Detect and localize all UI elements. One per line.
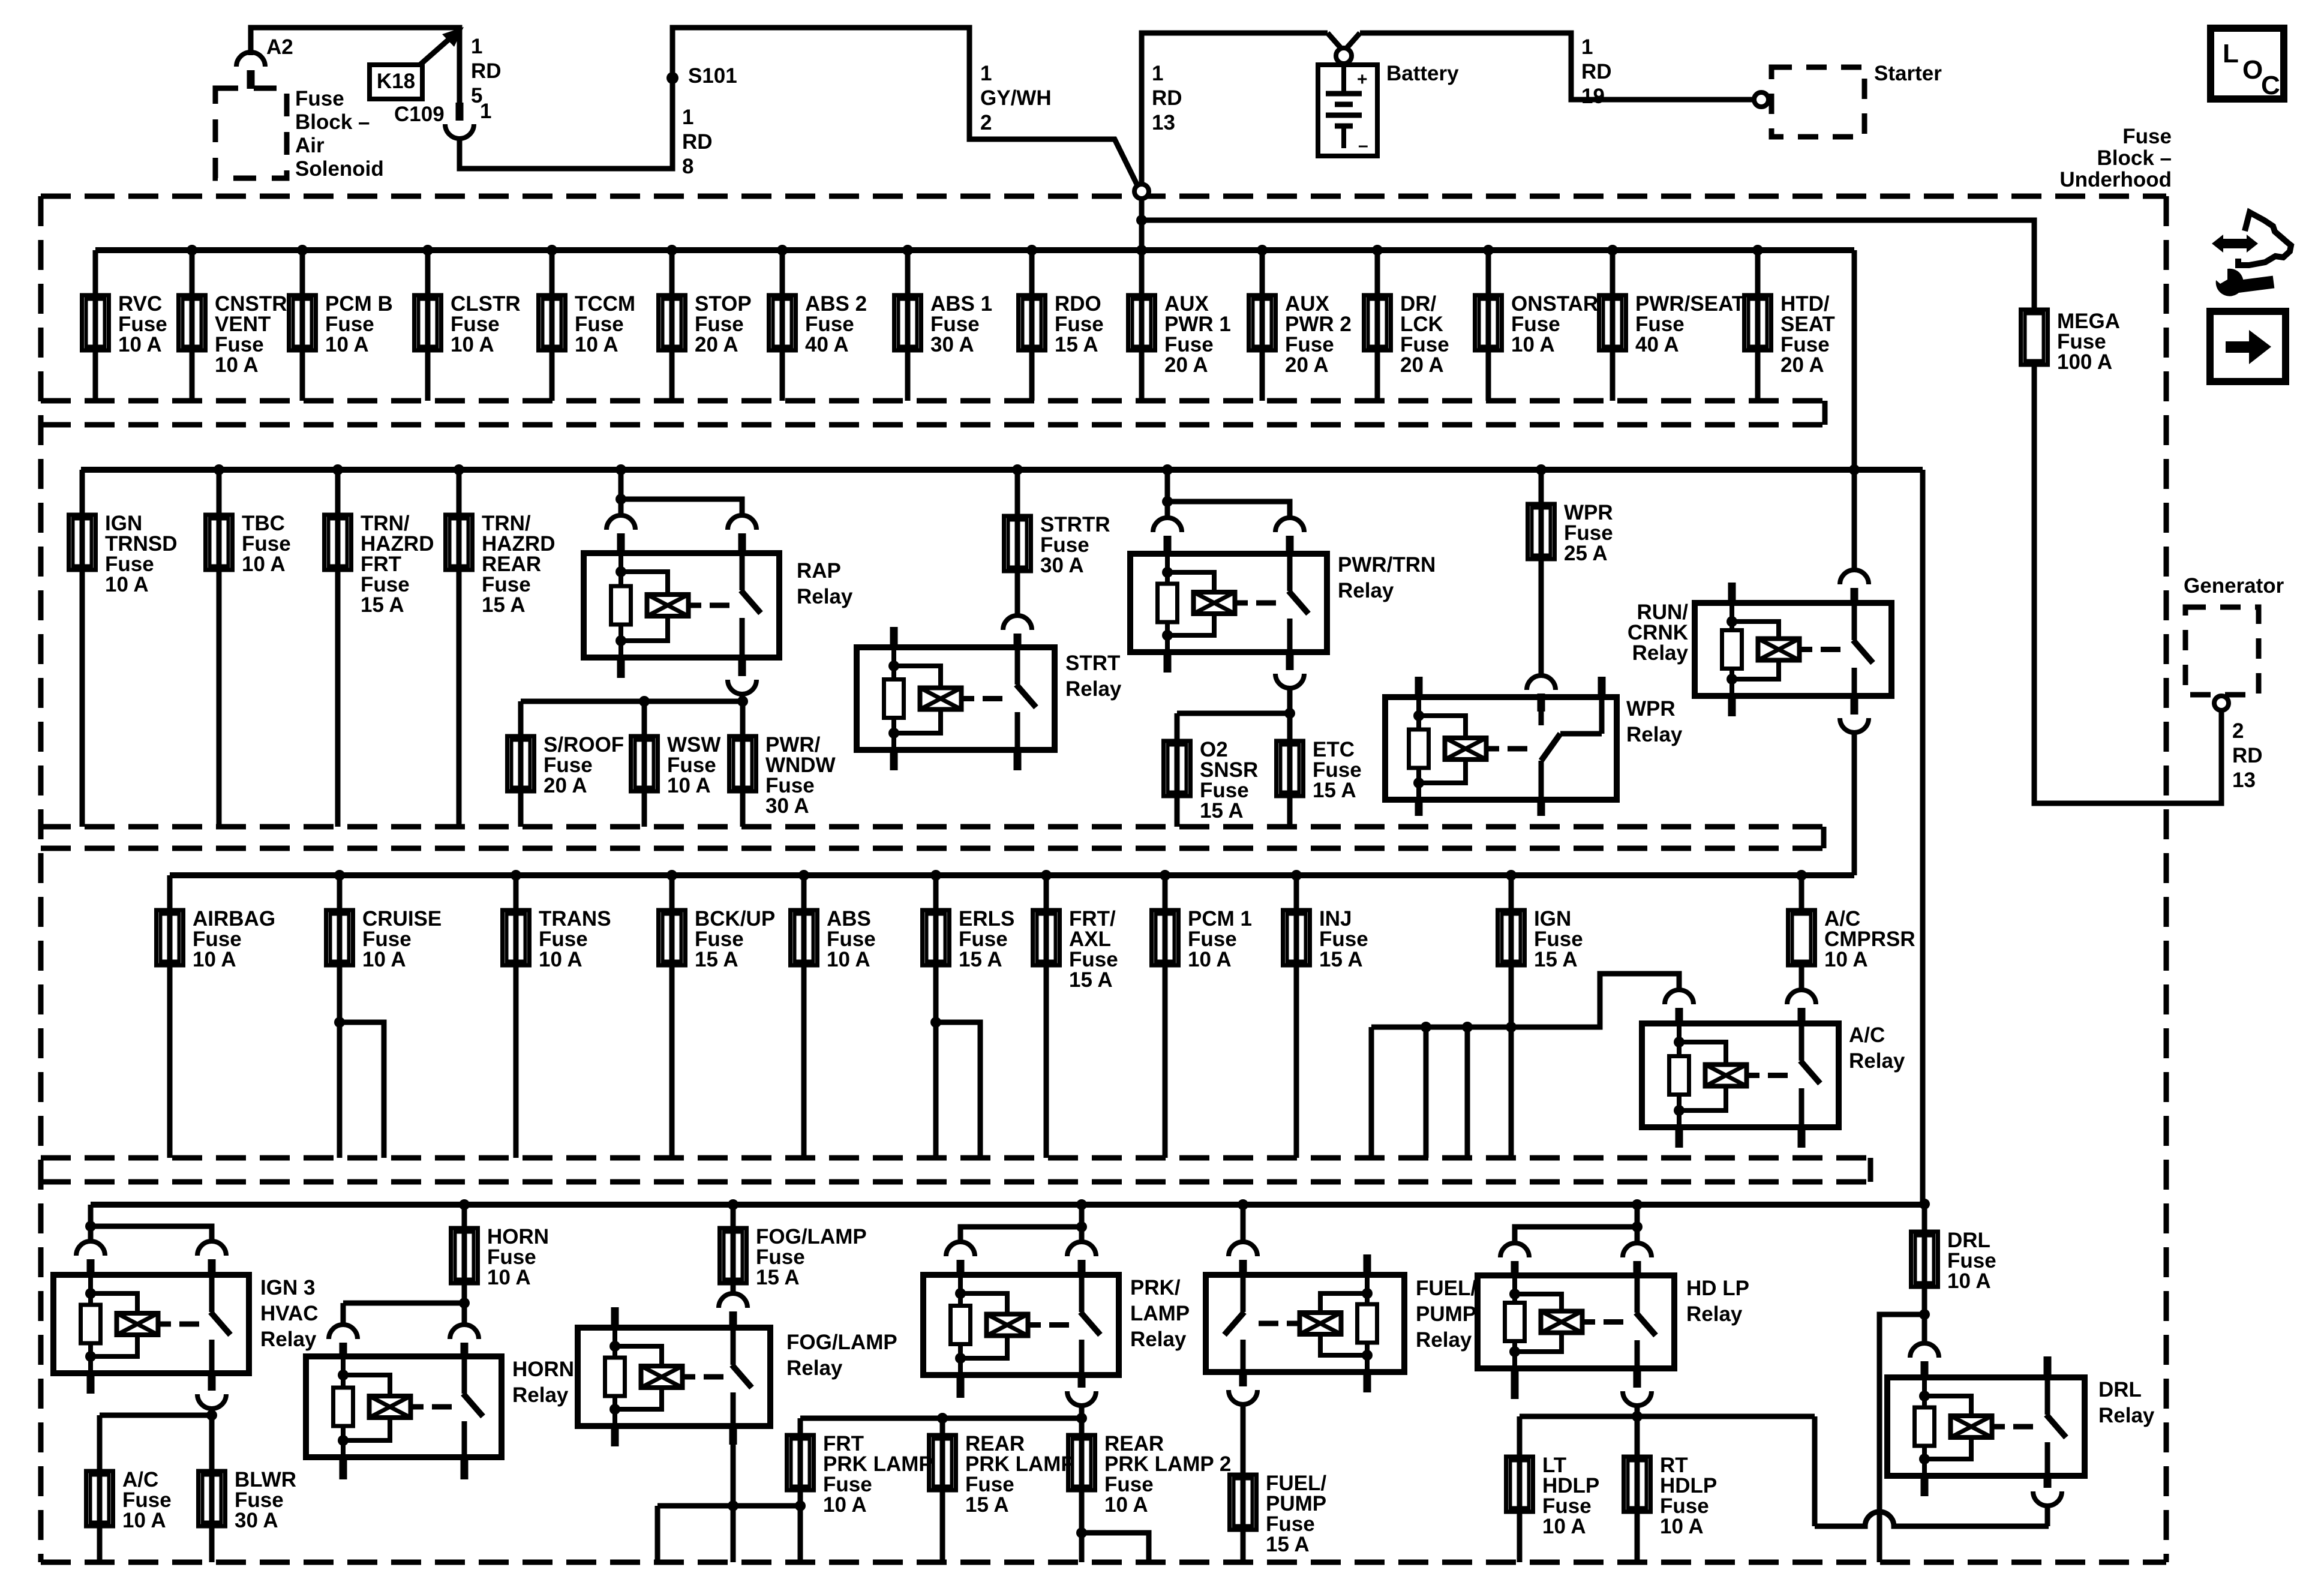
arrow box icon bbox=[2210, 311, 2286, 382]
wire HD LP branch to DRL relay output bbox=[1812, 1416, 1818, 1526]
wire DRL branch down bbox=[1879, 1314, 1924, 1562]
connector PWR/TRN switch pin bbox=[1275, 518, 1304, 532]
fuse DRL bbox=[1922, 1205, 1927, 1344]
fuse RVC bbox=[93, 250, 98, 401]
feed splice circle into fuse block bbox=[1134, 184, 1149, 199]
connector FUEL/PUMP output bbox=[1229, 1390, 1257, 1404]
fuse ABS bbox=[798, 870, 809, 881]
fuse IGN bbox=[1506, 870, 1517, 881]
fuse TBC bbox=[217, 470, 222, 827]
connector IGN3 coil pin bbox=[76, 1241, 105, 1256]
fuse FOG/LAMP bbox=[728, 1199, 738, 1210]
svg-text:RVCFuse10 A: RVCFuse10 A bbox=[118, 292, 167, 356]
wire MEGA to generator bbox=[2034, 363, 2221, 803]
fuse BLWR bbox=[209, 1415, 215, 1562]
wire IGN to A/C relay coil bbox=[1511, 974, 1679, 1027]
fuse PCM 1 bbox=[1160, 870, 1170, 881]
fuse ERLS bbox=[930, 870, 941, 881]
fuse CRUISE bbox=[334, 870, 345, 881]
fuse HTD/SEAT bbox=[1755, 250, 1761, 401]
relay IGN 3 HVAC bbox=[53, 1275, 249, 1373]
wire battery to starter bbox=[1360, 33, 1753, 100]
fuse TRN/HAZRD FRT bbox=[335, 470, 341, 827]
fuse AUX PWR 2 bbox=[1260, 250, 1265, 401]
svg-text:A2: A2 bbox=[266, 35, 293, 59]
svg-text:RDOFuse15 A: RDOFuse15 A bbox=[1055, 292, 1104, 356]
connector C109 bbox=[445, 124, 474, 139]
svg-text:+: + bbox=[1357, 70, 1368, 89]
connector RAP output bbox=[728, 680, 756, 694]
svg-text:ETCFuse15 A: ETCFuse15 A bbox=[1313, 738, 1362, 802]
IGN fuse wire and taps bbox=[1509, 875, 1514, 1158]
sub-bus HDLP fuses bbox=[1632, 1411, 1643, 1422]
connector HORN switch pin bbox=[450, 1325, 479, 1339]
fuse A/C CMPRSR bbox=[1796, 870, 1807, 881]
svg-text:FRT/AXLFuse15 A: FRT/AXLFuse15 A bbox=[1069, 907, 1118, 992]
Fuse Block - Air Solenoid dashed box bbox=[215, 88, 287, 178]
connector DRL coil pin bbox=[1910, 1343, 1939, 1358]
wire with hop over at 3133 bbox=[1815, 1512, 2049, 1526]
row 2 bus bbox=[81, 467, 1923, 473]
fuse O2 SNSR bbox=[1175, 713, 1180, 827]
fuse TCCM bbox=[550, 250, 555, 401]
fuse STRTR bbox=[1012, 464, 1023, 475]
relay RAP bbox=[584, 553, 779, 658]
row separator dashed lines bbox=[41, 401, 1870, 1182]
Generator dashed box bbox=[2185, 607, 2259, 695]
svg-text:Starter: Starter bbox=[1874, 62, 1942, 85]
fuse IGN TRNSD bbox=[80, 470, 85, 827]
fuse TRN/HAZRD REAR bbox=[457, 470, 462, 827]
STRT coil pin stub bbox=[890, 627, 898, 647]
fuse AIRBAG bbox=[157, 910, 184, 965]
CRUISE fuse wire with tap bbox=[337, 875, 343, 1158]
FUEL/PUMP relay feed bbox=[1238, 1199, 1248, 1210]
fuse S/ROOF bbox=[518, 701, 524, 827]
fuse PWR/SEAT bbox=[1610, 250, 1616, 401]
fuse RT HDLP bbox=[1635, 1416, 1640, 1562]
fuse DR/LCK bbox=[1375, 250, 1380, 401]
connector IGN3 switch pin bbox=[197, 1241, 226, 1256]
row 1 bus bbox=[95, 247, 1854, 253]
FUEL/PUMP coil pin stub bbox=[1364, 1254, 1371, 1275]
fuse RDO bbox=[1029, 250, 1035, 401]
row 4 bus bbox=[91, 1202, 1924, 1208]
fuse A/C bbox=[97, 1415, 103, 1562]
fuse REAR PRK LAMP 2 bbox=[1068, 1435, 1095, 1490]
svg-text:WPRFuse25 A: WPRFuse25 A bbox=[1564, 501, 1613, 565]
fuse CLSTR bbox=[425, 250, 431, 401]
ERLS fuse wire with tap bbox=[933, 875, 939, 1158]
wire C109 to S101 bbox=[460, 28, 1137, 185]
connector PWR/TRN coil pin bbox=[1153, 518, 1182, 532]
Fuse Block - Underhood dashed border bbox=[41, 196, 2166, 1562]
sub-bus PRK LAMP fuses bbox=[1076, 1413, 1087, 1424]
connector RAP coil pin bbox=[606, 515, 635, 530]
fuse AUX PWR 1 bbox=[1139, 250, 1145, 401]
fuse INJ bbox=[1291, 870, 1302, 881]
HD LP relay feed bbox=[1632, 1199, 1643, 1210]
RAP relay feed bbox=[615, 464, 626, 475]
battery top connector bbox=[1328, 33, 1341, 49]
wire RUN/CRNK output to row 3 bus bbox=[1852, 733, 1857, 875]
connector/wrench icon bbox=[2212, 212, 2291, 296]
fuse FRT PRK LAMP bbox=[798, 1418, 803, 1506]
FOG/LAMP coil pin stub bbox=[611, 1307, 619, 1328]
connector DRL output bbox=[2033, 1491, 2062, 1506]
K18 arrow bbox=[420, 38, 450, 65]
fuse ABS 2 bbox=[780, 250, 785, 401]
wire A2 to C109 drop bbox=[251, 28, 460, 103]
connector A2 bbox=[236, 52, 265, 67]
connector PWR/TRN output bbox=[1275, 674, 1304, 688]
fuse WPR bbox=[1536, 464, 1547, 475]
fuse ABS 1 bbox=[905, 250, 911, 401]
relay PRK/LAMP bbox=[923, 1275, 1119, 1375]
relay WPR bbox=[1385, 697, 1617, 800]
fuse WSW bbox=[642, 701, 647, 827]
connector IGN3 output bbox=[197, 1394, 226, 1409]
relay A/C bbox=[1642, 1023, 1839, 1127]
PWR/TRN relay feed bbox=[1162, 464, 1173, 475]
node T to MEGA bbox=[1136, 215, 1147, 226]
svg-text:S101: S101 bbox=[688, 64, 737, 88]
sub-bus S/ROOF WSW PWR/WNDW bbox=[521, 699, 743, 704]
fuse ONSTAR bbox=[1486, 250, 1491, 401]
RUN/CRNK coil pin stub bbox=[1728, 583, 1736, 603]
battery bbox=[1318, 62, 1377, 156]
fuse HORN bbox=[459, 1199, 470, 1210]
svg-text:1: 1 bbox=[480, 100, 491, 123]
RAP relay bottom pins bbox=[617, 658, 625, 678]
relay HORN bbox=[306, 1356, 502, 1457]
feed wire into fuse block bbox=[1139, 199, 1145, 250]
svg-text:–: – bbox=[1358, 136, 1368, 155]
fuse PWR/WNDW bbox=[740, 701, 746, 827]
connector STRT relay switch pin bbox=[1003, 616, 1032, 630]
connector PRK/LAMP coil pin bbox=[946, 1242, 975, 1256]
row 3 bus bbox=[170, 872, 1854, 878]
connector PRK/LAMP output bbox=[1067, 1391, 1096, 1406]
svg-text:TBCFuse10 A: TBCFuse10 A bbox=[242, 512, 291, 576]
K18 box bbox=[370, 65, 422, 99]
LOC box icon bbox=[2211, 28, 2284, 100]
connector A/C relay switch pin bbox=[1787, 990, 1816, 1004]
svg-text:Battery: Battery bbox=[1386, 62, 1459, 85]
fuse PCM B bbox=[300, 250, 305, 401]
svg-text:C109: C109 bbox=[394, 103, 445, 126]
svg-text:IGN 3HVACRelay: IGN 3HVACRelay bbox=[260, 1276, 319, 1351]
svg-text:O: O bbox=[2242, 55, 2263, 85]
wire to A/C and BLWR fuses bbox=[206, 1410, 217, 1421]
fuse ETC bbox=[1287, 713, 1293, 827]
svg-text:C: C bbox=[2261, 71, 2280, 100]
fuse CNSTR VENT bbox=[190, 250, 195, 401]
connector HD LP switch pin bbox=[1623, 1243, 1652, 1257]
sub-bus O2/ETC bbox=[1177, 711, 1290, 716]
row 2 bus right feed down to row 4 bbox=[1920, 470, 1926, 1205]
connector PRK/LAMP switch pin bbox=[1067, 1242, 1096, 1256]
connector C109 pin bbox=[456, 103, 464, 121]
Starter dashed box bbox=[1771, 67, 1864, 137]
fuse A/C CMPRSR wire bbox=[1799, 875, 1804, 910]
IGN 3 HVAC relay feed bbox=[88, 1205, 94, 1242]
connector RAP switch pin bbox=[728, 515, 756, 530]
starter connector circle bbox=[1754, 92, 1768, 107]
svg-text:L: L bbox=[2223, 39, 2239, 68]
svg-text:RUN/CRNKRelay: RUN/CRNKRelay bbox=[1628, 601, 1689, 665]
wire 1 RD 13 battery feed bbox=[1142, 33, 1328, 184]
connector HORN coil pin bbox=[329, 1325, 358, 1339]
connector HD LP coil pin bbox=[1500, 1243, 1529, 1257]
RUN/CRNK relay feed bbox=[1849, 464, 1860, 475]
fuse STOP bbox=[669, 250, 675, 401]
fuse BCK/UP bbox=[666, 870, 677, 881]
fuse FRT/AXL bbox=[1041, 870, 1052, 881]
fuse LT HDLP bbox=[1517, 1416, 1523, 1562]
fuse REAR PRK LAMP bbox=[940, 1418, 945, 1562]
generator connector circle bbox=[2214, 696, 2229, 710]
fuse FUEL/PUMP bbox=[1241, 1404, 1246, 1562]
connector HD LP output bbox=[1623, 1391, 1652, 1406]
svg-text:FUEL/PUMPRelay: FUEL/PUMPRelay bbox=[1416, 1277, 1476, 1352]
connector FOG/LAMP switch pin bbox=[719, 1293, 747, 1308]
relay PWR/TRN bbox=[1130, 554, 1327, 652]
connector WPR relay switch pin bbox=[1527, 676, 1556, 690]
connector RUN/CRNK output bbox=[1840, 718, 1869, 733]
DRL switch pin stub bbox=[2044, 1356, 2052, 1377]
fuse TRANS bbox=[511, 870, 521, 881]
svg-text:K18: K18 bbox=[377, 70, 415, 93]
wire to MEGA fuse bbox=[1142, 220, 2034, 310]
fuse MEGA bbox=[2021, 310, 2048, 365]
svg-text:Generator: Generator bbox=[2184, 574, 2284, 598]
PRK/LAMP relay feed bbox=[1076, 1199, 1087, 1210]
svg-text:ABSFuse10 A: ABSFuse10 A bbox=[827, 907, 876, 971]
connector RUN/CRNK switch pin bbox=[1840, 570, 1869, 584]
wire row1 bus right feed down to RUN/CRNK bbox=[1852, 250, 1857, 571]
connector A/C relay coil pin bbox=[1665, 990, 1694, 1004]
relay HD LP bbox=[1478, 1275, 1674, 1368]
svg-text:DRLFuse10 A: DRLFuse10 A bbox=[1947, 1229, 1996, 1293]
splice S101 bbox=[666, 72, 678, 84]
connector FUEL/PUMP switch pin bbox=[1229, 1242, 1257, 1256]
wire FOG/LAMP output bbox=[731, 1445, 736, 1562]
